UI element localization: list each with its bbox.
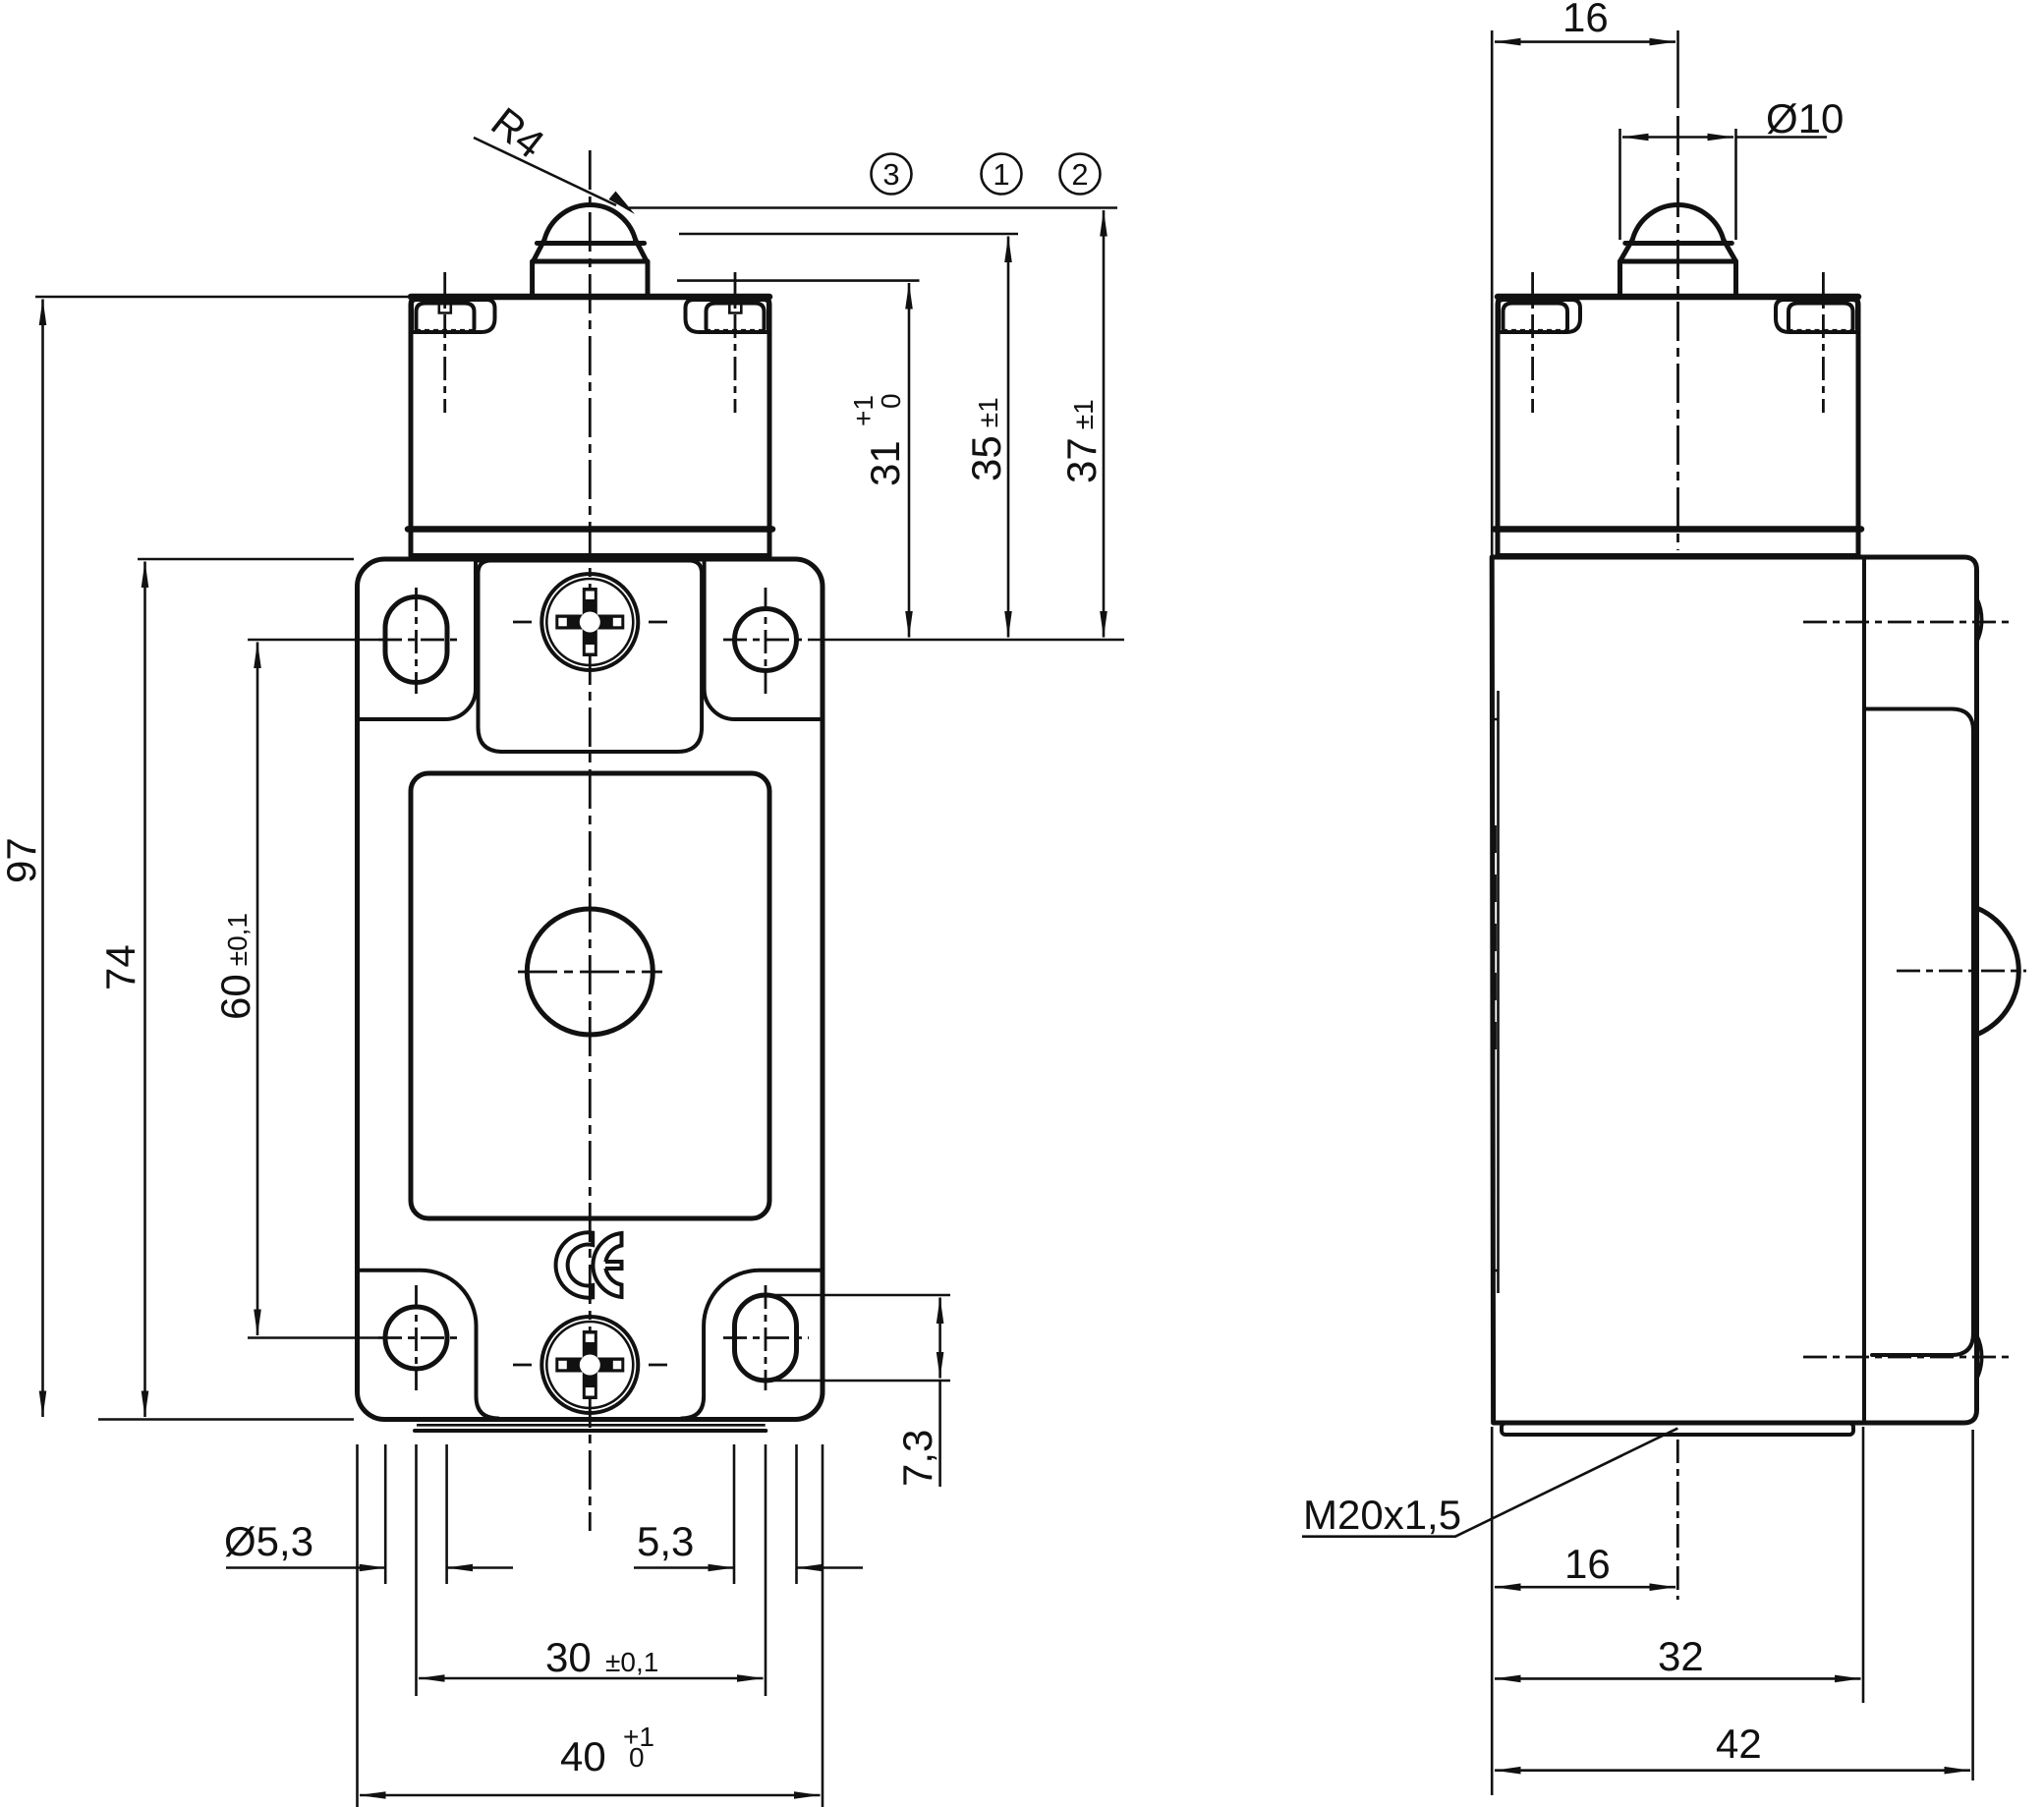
centerline bottom screw axis (side) — [1803, 1356, 2009, 1359]
dimension 16 top line — [1495, 40, 1675, 43]
hole centerline row bottom (front) — [248, 1336, 378, 1339]
head screw pocket right (side) — [1776, 300, 1857, 332]
dimension 31 line — [908, 283, 911, 638]
foot plate (front) — [417, 1424, 766, 1427]
conduit boss bump middle (side) — [1977, 908, 2019, 1035]
body outline (front) — [358, 559, 823, 1420]
head outline (side) — [1498, 297, 1858, 556]
dimension Ø10 extensions — [1618, 129, 1621, 240]
head screw pocket left (front) — [412, 300, 495, 332]
dimension 42 extension — [1971, 1430, 1974, 1780]
head screw pocket left (side) — [1499, 300, 1580, 332]
svg-text:40: 40 — [560, 1733, 606, 1779]
hole centerline row top (front) — [248, 639, 378, 642]
circled 2 — [1060, 154, 1101, 195]
M20x1,5 underline and leader — [1302, 1429, 1677, 1537]
head collar bottom line (front) — [411, 553, 769, 558]
mounting hole circle bottom-left (front) — [385, 1307, 447, 1369]
svg-text:0: 0 — [629, 1742, 645, 1773]
circled 1 — [982, 154, 1022, 195]
plunger neck line (front) — [537, 241, 644, 246]
plunger neck line (side) — [1625, 241, 1732, 246]
plunger cylinder sides (side) — [1618, 261, 1622, 296]
body front-back boundary line (side) — [1862, 559, 1866, 1421]
dimension 35 extension line — [679, 233, 1018, 236]
dimension 74 extension top — [138, 558, 354, 561]
svg-text:42: 42 — [1716, 1721, 1762, 1767]
svg-text:2: 2 — [1071, 157, 1088, 192]
svg-text:30: 30 — [545, 1634, 592, 1680]
svg-text:1: 1 — [993, 157, 1009, 192]
plunger dome (front) — [544, 205, 636, 240]
body outline (side) — [1492, 557, 1976, 1423]
svg-text:16: 16 — [1562, 0, 1609, 40]
head screw dome right (side) — [1788, 304, 1853, 329]
dimension 5,3 lines — [634, 1566, 734, 1569]
head screw hatch right (side) — [1788, 329, 1854, 332]
plunger cylinder sides (front) — [530, 261, 535, 296]
head screw centerline right (side) — [1822, 272, 1825, 413]
phillips screw bottom (front) — [513, 1317, 667, 1413]
mounting hole oval top-left (front) — [385, 597, 447, 683]
centerline below foot (side) — [1676, 1440, 1679, 1600]
CE mark — [556, 1232, 622, 1297]
dimension Ø5,3 lines — [226, 1566, 385, 1569]
dimension 37 extension line — [629, 206, 1117, 209]
dimension 7,3 line — [938, 1298, 941, 1379]
dimension 97-74 extension bottom — [98, 1418, 354, 1421]
dimension Ø10 line — [1622, 136, 1733, 139]
R4 leader — [474, 138, 616, 205]
wing pocket contour top-right (front) — [705, 562, 822, 720]
dimension 32 line — [1495, 1677, 1861, 1680]
dimension 31 extension line — [677, 279, 920, 282]
head screw centerline right (front) — [734, 272, 737, 413]
extension line 31-35-37 baseline — [809, 639, 1124, 642]
svg-text:M20x1,5: M20x1,5 — [1303, 1492, 1461, 1538]
dimension 35 line — [1007, 237, 1010, 638]
wing pocket contour bottom-right (front) — [682, 1271, 822, 1419]
svg-text:0: 0 — [876, 393, 906, 409]
dimension 16 top extension left — [1491, 30, 1494, 556]
cover plate (front) — [411, 773, 769, 1218]
head collar bottom line (side) — [1498, 553, 1858, 558]
dimension Ø5,3 extensions — [384, 1444, 387, 1584]
svg-text:7,3: 7,3 — [894, 1430, 940, 1487]
dimension 7,3 extensions — [774, 1294, 950, 1297]
phillips screw top (front) — [513, 574, 667, 670]
svg-text:74: 74 — [97, 944, 143, 990]
head screw slot right (front) — [729, 300, 741, 313]
head screw hatch right (front) — [706, 329, 765, 332]
dimension 37 line — [1103, 210, 1106, 638]
dimension 97 extension top — [35, 296, 410, 299]
svg-text:±0,1: ±0,1 — [605, 1647, 658, 1677]
head top line (side) — [1498, 294, 1858, 301]
hole crosshair verticals bottom (front) — [415, 1285, 418, 1390]
dimension 40 line — [360, 1794, 821, 1797]
dimension 16 bottom line — [1495, 1586, 1675, 1589]
head screw dome right (front) — [707, 304, 765, 329]
head bottom line (side) — [1495, 526, 1861, 533]
small bump bottom (side) — [1977, 1335, 1982, 1379]
head screw dome left (side) — [1504, 304, 1568, 329]
head screw hatch left (side) — [1503, 329, 1568, 332]
svg-text:3: 3 — [882, 157, 899, 192]
dimension 30 line — [419, 1677, 764, 1680]
svg-text:97: 97 — [0, 837, 44, 883]
plunger shoulder lines (side) — [1620, 240, 1633, 261]
svg-text:Ø5,3: Ø5,3 — [224, 1518, 313, 1564]
front face recess line (side) — [1497, 691, 1500, 1293]
head screw centerline left (front) — [443, 272, 446, 413]
dimension 74 line — [143, 562, 146, 1418]
head screw slot left (front) — [439, 300, 451, 313]
plunger dome (side) — [1632, 205, 1724, 240]
svg-text:31: 31 — [862, 440, 908, 486]
dimension 5,3 extensions — [733, 1444, 736, 1584]
head screw centerline left (side) — [1531, 272, 1534, 413]
centerline conduit axis (side) — [1897, 970, 2026, 973]
plunger base line (front) — [534, 259, 648, 264]
head screw pocket right (front) — [686, 300, 769, 332]
centerline vertical front view — [589, 150, 592, 1531]
plunger shoulder lines (front) — [534, 240, 545, 261]
central pocket top (front) — [479, 561, 703, 753]
svg-text:5,3: 5,3 — [637, 1518, 694, 1564]
hole crosshair verticals top (front) — [415, 588, 418, 694]
centerline vertical side view — [1676, 116, 1679, 550]
svg-text:32: 32 — [1658, 1633, 1704, 1679]
back cover inner outline (side) — [1866, 709, 1973, 1356]
wing pocket contour top-left (front) — [359, 562, 477, 720]
svg-text:+1: +1 — [848, 395, 879, 426]
dimension 16 top extension right — [1676, 30, 1679, 108]
head top line (front) — [411, 294, 769, 301]
mounting hole circle top-right (front) — [735, 609, 797, 671]
plunger base line (side) — [1620, 259, 1736, 264]
dimension 40 extensions — [356, 1444, 359, 1807]
conduit circle crosshair (front) — [518, 971, 662, 974]
svg-text:16: 16 — [1564, 1541, 1611, 1587]
dimension 32 extension — [1862, 1427, 1865, 1703]
centerline top screw axis (side) — [1803, 621, 2009, 624]
circled 3 — [872, 154, 912, 195]
mounting hole oval bottom-right (front) — [735, 1295, 797, 1381]
svg-text:Ø10: Ø10 — [1766, 95, 1844, 141]
conduit circle (front) — [527, 909, 653, 1035]
foot plate (side) — [1502, 1424, 1853, 1436]
head outline (front) — [411, 297, 769, 556]
head screw hatch left (front) — [416, 329, 475, 332]
wing pocket contour bottom-left (front) — [359, 1271, 499, 1419]
dimension 42 line — [1495, 1769, 1970, 1772]
dimension 30 extensions — [415, 1444, 418, 1696]
head screw dome left (front) — [417, 304, 475, 329]
cover plate edge marks (side) — [1494, 825, 1497, 1071]
head bottom line (front) — [408, 526, 772, 533]
dimension 60 line — [256, 643, 259, 1336]
dimension 16 bottom extension — [1491, 1427, 1494, 1795]
small bump top (side) — [1977, 598, 1982, 642]
dimension 97 line — [41, 300, 44, 1418]
